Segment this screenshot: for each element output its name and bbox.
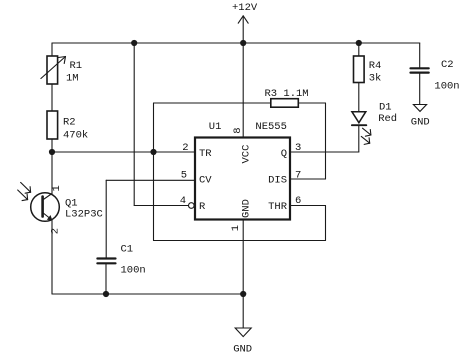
svg-text:C2: C2	[441, 59, 454, 71]
resistor R4 3k	[354, 56, 382, 85]
svg-text:100n: 100n	[434, 80, 459, 92]
svg-text:3k: 3k	[369, 73, 382, 85]
svg-text:Red: Red	[378, 113, 397, 125]
svg-text:C1: C1	[121, 243, 134, 255]
svg-text:VCC: VCC	[240, 145, 252, 164]
wire rail to C2	[419, 43, 421, 67]
svg-text:R: R	[199, 201, 206, 213]
node junction top rail / R4	[356, 40, 362, 46]
wire bottom rail	[52, 293, 243, 295]
svg-text:1: 1	[230, 225, 242, 231]
svg-text:470k: 470k	[63, 129, 88, 141]
svg-text:GND: GND	[411, 117, 430, 129]
svg-text:2: 2	[50, 228, 62, 234]
wire R1 to R2	[51, 84, 53, 111]
wire TR: node A to pin 2	[52, 151, 195, 153]
wire bottom rail to ground	[242, 294, 244, 328]
svg-text:TR: TR	[199, 148, 212, 160]
wire Q1 emitter to bottom rail	[51, 220, 53, 294]
svg-text:R4: R4	[369, 60, 382, 72]
svg-text:Q1: Q1	[65, 197, 78, 209]
capacitor C2 100n	[411, 59, 460, 92]
svg-text:L32P3C: L32P3C	[65, 209, 103, 221]
wire Q output: pin 3 to LED	[290, 125, 359, 152]
wire GND pin 1 stub	[242, 220, 244, 295]
wire +12V top rail	[52, 42, 420, 44]
op-amp U1 NE555 body	[195, 121, 290, 220]
svg-text:R3 1.1M: R3 1.1M	[265, 88, 309, 100]
resistor R1 1M variable	[41, 56, 82, 85]
wire node A to Q1 collector	[51, 152, 53, 194]
power +12V	[232, 2, 258, 43]
svg-text:U1: U1	[209, 121, 222, 133]
svg-text:4: 4	[180, 195, 186, 207]
svg-text:2: 2	[182, 142, 188, 154]
wire R2 to node A	[51, 139, 53, 152]
wire feedback vertical R3-left / TR / THR loop	[153, 103, 155, 241]
svg-text:R2: R2	[63, 116, 76, 128]
svg-text:DIS: DIS	[268, 175, 287, 187]
wire rail to R1	[51, 43, 53, 56]
wire C1 to bottom rail	[105, 264, 107, 294]
svg-text:GND: GND	[233, 343, 252, 355]
svg-text:8: 8	[232, 127, 244, 133]
svg-text:+12V: +12V	[232, 2, 258, 14]
svg-text:D1: D1	[379, 101, 392, 113]
svg-text:1M: 1M	[66, 73, 79, 85]
wire R3 left	[154, 102, 271, 104]
wire R3 right to DIS	[290, 103, 326, 179]
capacitor C1 100n	[97, 243, 145, 276]
wire rail to R4	[358, 43, 360, 56]
svg-text:CV: CV	[199, 175, 212, 187]
transistor Q1 L32P3C phototransistor	[18, 182, 103, 234]
ground main	[233, 328, 252, 355]
node junction top rail / VCC	[240, 40, 246, 46]
wire C2 to ground	[419, 74, 421, 105]
svg-text:R1: R1	[70, 60, 83, 72]
wire THR loop	[154, 206, 326, 241]
node junction bottom rail / GND	[240, 291, 246, 297]
node junction bottom rail / C1	[103, 291, 109, 297]
svg-text:7: 7	[295, 170, 301, 182]
svg-text:1: 1	[51, 185, 63, 191]
svg-text:5: 5	[181, 170, 187, 182]
node junction top rail / pin4	[131, 40, 137, 46]
resistor R3 1.1M	[265, 88, 309, 107]
wire R4 to D1	[358, 83, 360, 112]
wire reset: +12V rail to pin 4	[134, 43, 188, 206]
svg-text:THR: THR	[268, 201, 288, 213]
svg-text:100n: 100n	[121, 264, 146, 276]
ground C2	[411, 105, 430, 129]
node A junction R2/Q1/TR	[49, 149, 55, 155]
pin 4 inversion bubble	[189, 203, 195, 209]
wire VCC pin 8 stub	[242, 43, 244, 138]
wire CV: pin 5 to C1	[106, 180, 195, 257]
diode D1 Red LED	[352, 101, 397, 144]
svg-text:GND: GND	[240, 199, 252, 218]
resistor R2 470k	[47, 111, 88, 141]
svg-text:NE555: NE555	[255, 121, 287, 133]
svg-text:Q: Q	[281, 148, 287, 160]
svg-text:6: 6	[295, 195, 301, 207]
node junction TR / feedback	[150, 149, 156, 155]
